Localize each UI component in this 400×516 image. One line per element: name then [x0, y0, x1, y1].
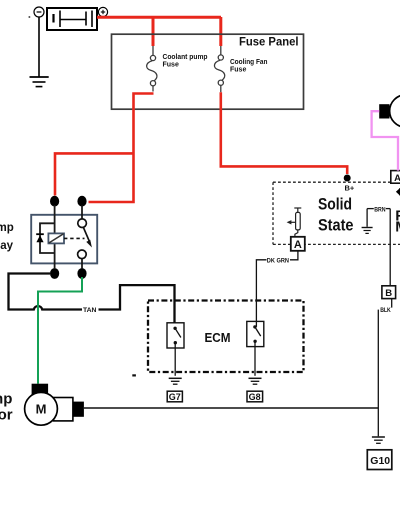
- wire battery negative to ground: [38, 17, 40, 77]
- wire relay pin3 to ECM (TAN): [9, 274, 175, 329]
- node B+: [344, 175, 351, 182]
- svg-text:Coolant Pump: Coolant Pump: [0, 390, 12, 407]
- node G7: [167, 391, 182, 402]
- coolant pump motor connector right: [54, 398, 84, 421]
- svg-text:Motor: Motor: [395, 219, 400, 236]
- svg-text:Solid: Solid: [318, 195, 352, 213]
- relay pin 2: [77, 196, 86, 207]
- wire fan module A to fan motor (pink): [372, 111, 398, 170]
- svg-text:Cooling Fan: Cooling Fan: [230, 59, 268, 66]
- svg-text:Relay: Relay: [0, 240, 14, 252]
- wire BRN with ground: [367, 209, 390, 286]
- svg-text:G10: G10: [370, 455, 390, 467]
- wire switch1 to ground: [174, 343, 176, 376]
- svg-text:M: M: [36, 402, 47, 417]
- svg-text:BRN: BRN: [374, 206, 385, 213]
- fan motor M2: [390, 95, 400, 127]
- wire switch2 to ground: [254, 341, 256, 376]
- wire motor to G10 (long bottom): [84, 407, 378, 409]
- relay coil branch wire: [40, 205, 55, 269]
- stray mark: [29, 16, 31, 18]
- relay mechanical link (dashed): [64, 237, 85, 239]
- relay switch arrowhead: [86, 240, 92, 248]
- svg-text:Coolant pump: Coolant pump: [163, 54, 208, 61]
- svg-text:A: A: [294, 239, 302, 251]
- pin B (fan module): [382, 286, 396, 299]
- fuse F2 cooling fan: [214, 46, 224, 92]
- fan motor terminal: [379, 104, 389, 118]
- svg-text:A: A: [394, 173, 400, 184]
- ground G7 symbol: [169, 378, 182, 384]
- svg-text:B: B: [385, 288, 392, 299]
- ECM driver switch 1: [167, 323, 184, 348]
- svg-text:Motor: Motor: [0, 406, 13, 423]
- ground (G10): [372, 437, 385, 443]
- fuse F1 coolant pump: [147, 46, 157, 92]
- label DK GRN: [267, 256, 291, 265]
- wire fuse F2 to B+ (red): [221, 92, 347, 174]
- wire pin B to G10 (BLK): [378, 299, 391, 437]
- ECM driver switch 2: [247, 321, 264, 346]
- battery positive terminal: [98, 7, 107, 16]
- relay pin 1: [50, 196, 59, 207]
- coolant pump motor M1: [25, 392, 58, 425]
- wire fuse F1 to relay (red): [55, 94, 154, 203]
- battery B1: [47, 8, 97, 30]
- ground (BRN): [362, 228, 373, 234]
- pin A (fan module): [391, 171, 400, 184]
- wire relay pin4 to motor (green): [38, 277, 82, 384]
- sensor arrowhead: [287, 220, 292, 224]
- label TAN: [82, 306, 99, 315]
- stray dash mark: [132, 374, 136, 376]
- connector arrow below pin A: [396, 187, 400, 196]
- solid state internal sensor element: [290, 208, 301, 237]
- relay coil: [48, 233, 64, 243]
- pin A (solid state): [291, 237, 305, 251]
- svg-text:B+: B+: [345, 184, 355, 193]
- coolant pump motor terminal top: [32, 384, 48, 395]
- svg-text:G8: G8: [249, 392, 261, 402]
- battery negative terminal: [34, 7, 44, 17]
- solid state module box (dashed): [273, 182, 400, 244]
- ground G8 symbol: [249, 378, 262, 384]
- ground (battery): [30, 77, 49, 87]
- svg-text:Fuse Panel: Fuse Panel: [239, 35, 299, 49]
- relay switch contact: [78, 205, 90, 269]
- ECM box (dashed): [148, 301, 304, 373]
- svg-text:ECM: ECM: [205, 331, 231, 345]
- svg-text:Fuse: Fuse: [163, 62, 179, 69]
- svg-text:Coolant Pump: Coolant Pump: [0, 222, 14, 234]
- svg-text:BLK: BLK: [380, 307, 391, 314]
- wire solid state A to ECM (DK GRN): [256, 251, 298, 327]
- svg-text:Fuse: Fuse: [230, 67, 246, 74]
- fuse panel box: [112, 34, 304, 109]
- svg-text:State: State: [318, 217, 354, 235]
- svg-text:TAN: TAN: [83, 307, 97, 314]
- relay pin 3: [50, 268, 59, 279]
- svg-text:G7: G7: [169, 392, 181, 402]
- wire battery positive to fuses (red): [97, 17, 221, 46]
- svg-text:DK GRN: DK GRN: [267, 257, 289, 264]
- relay diode D1: [36, 234, 44, 242]
- node G8: [247, 391, 263, 402]
- relay pin 4: [77, 268, 86, 279]
- node G10: [367, 450, 392, 470]
- coolant pump relay box: [31, 215, 97, 264]
